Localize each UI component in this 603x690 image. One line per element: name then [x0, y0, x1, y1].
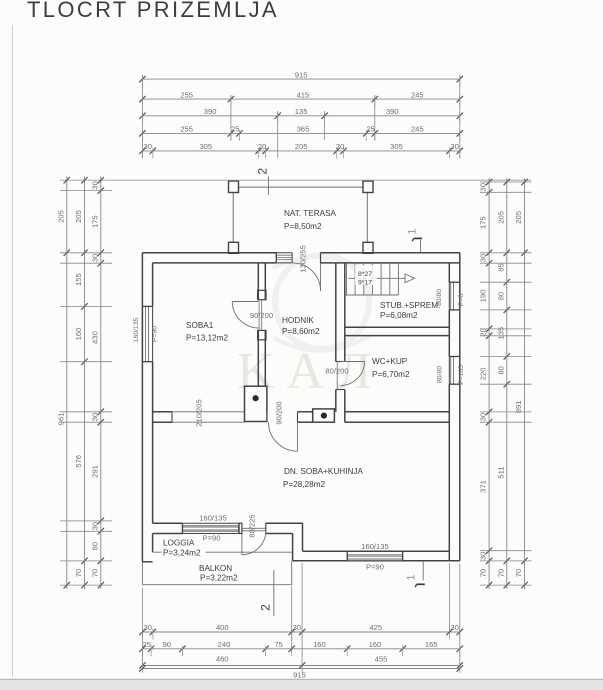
svg-text:P=6,08m2: P=6,08m2	[380, 311, 418, 320]
svg-text:205: 205	[74, 210, 83, 223]
watermark crest swirl	[272, 255, 369, 351]
main wall WC segment	[345, 412, 450, 422]
svg-text:20: 20	[479, 328, 488, 336]
wall HODNIK|STUB	[336, 263, 345, 422]
svg-text:90: 90	[163, 640, 171, 649]
right dim col 205|891|70	[514, 178, 528, 589]
right wall	[449, 253, 460, 561]
door label 80/200 (WC)	[325, 367, 348, 376]
svg-text:430: 430	[90, 331, 99, 344]
svg-text:25: 25	[143, 640, 151, 649]
door label 90/200 (DN.SOBA)	[275, 401, 284, 424]
svg-text:175: 175	[479, 216, 488, 229]
svg-text:75: 75	[274, 640, 282, 649]
svg-text:LOGGIA: LOGGIA	[163, 539, 195, 548]
door WC 80/200 (leaf+arc)	[337, 362, 364, 390]
svg-text:85: 85	[496, 263, 505, 271]
door label 80/225	[248, 514, 257, 537]
svg-text:NAT. TERASA: NAT. TERASA	[284, 209, 337, 218]
svg-text:160/135: 160/135	[199, 514, 226, 523]
svg-text:STUB.+SPREM.: STUB.+SPREM.	[380, 301, 440, 310]
staircase arrow	[349, 274, 415, 283]
top dim row 390|135|390	[139, 107, 463, 123]
window SOBA1 left 160/135	[142, 306, 152, 361]
svg-text:255: 255	[180, 125, 193, 134]
top wall left segment	[142, 253, 276, 263]
room label DN. SOBA+KUHINJA	[283, 467, 363, 489]
main wall SOBA1 stub	[153, 412, 172, 422]
top dim row 30|305|20|205|20|305|30	[139, 142, 463, 158]
door label 90/200 (SOBA1)	[250, 311, 273, 320]
svg-text:30: 30	[479, 254, 488, 262]
svg-text:160: 160	[74, 328, 83, 341]
svg-text:155: 155	[74, 273, 83, 286]
svg-text:30: 30	[90, 181, 99, 189]
svg-text:30: 30	[90, 254, 99, 262]
opening label 210/205	[195, 399, 204, 426]
top dim row 255|415|245	[139, 90, 463, 106]
loggia wall left segment	[153, 523, 183, 533]
left dim col 205|961	[56, 176, 70, 589]
left dim col 205|155|160|576|70	[74, 176, 88, 589]
room label STUB.+SPREM.	[380, 301, 440, 320]
svg-text:511: 511	[496, 466, 505, 478]
door DN.SOBA 90/200 (leaf+arc)	[267, 413, 298, 451]
svg-text:P=3,22m2: P=3,22m2	[200, 574, 238, 583]
terrace pillar top-right	[363, 181, 373, 193]
top dim row 915	[139, 70, 463, 86]
svg-text:400: 400	[216, 623, 229, 632]
bottom dim row 915 (label below line)	[139, 665, 463, 679]
door SOBA1 90/200 (leaf+arc)	[232, 300, 261, 331]
wall STUB|WC	[336, 327, 450, 335]
svg-text:DN. SOBA+KUHINJA: DN. SOBA+KUHINJA	[284, 467, 363, 476]
svg-text:80/200: 80/200	[325, 367, 348, 376]
window label P=90 (loggia)	[203, 534, 221, 543]
svg-text:30: 30	[479, 183, 488, 191]
right dim col 205|85|80|135|80|511|70	[496, 178, 510, 589]
window STUB right 80/80	[449, 282, 460, 310]
room label LOGGIA	[163, 539, 201, 558]
svg-text:P=90: P=90	[152, 326, 159, 342]
svg-text:P=0: P=0	[458, 294, 465, 307]
terrace outline (NAT. TERASA)	[233, 187, 367, 253]
svg-text:245: 245	[411, 90, 424, 99]
svg-text:30: 30	[90, 522, 99, 530]
svg-text:P=8,50m2: P=8,50m2	[284, 222, 322, 231]
svg-text:1: 1	[406, 574, 418, 580]
svg-text:2: 2	[256, 168, 270, 175]
svg-text:210/205: 210/205	[195, 399, 204, 426]
page left border line	[12, 25, 14, 676]
section line 2 top	[256, 168, 270, 195]
svg-text:80: 80	[90, 542, 99, 550]
stairs label 8*27 9*17	[355, 265, 377, 286]
svg-text:390: 390	[204, 107, 217, 116]
svg-text:220: 220	[479, 368, 488, 381]
svg-text:30: 30	[450, 623, 458, 632]
svg-text:P=6,70m2: P=6,70m2	[372, 370, 410, 379]
svg-text:205: 205	[295, 142, 308, 151]
svg-text:P=28,28m2: P=28,28m2	[283, 480, 326, 489]
svg-text:165: 165	[425, 640, 438, 649]
svg-text:425: 425	[369, 623, 382, 632]
guide line above terrace	[60, 179, 531, 181]
svg-text:P=13,12m2: P=13,12m2	[186, 334, 229, 343]
svg-text:915: 915	[293, 671, 306, 680]
svg-text:25: 25	[231, 125, 239, 134]
door LOGGIA 80/225 (threshold+leaf+arc)	[242, 528, 266, 555]
bottom wall right part	[293, 551, 460, 561]
svg-text:70: 70	[90, 569, 99, 577]
svg-text:160/135: 160/135	[133, 318, 140, 343]
room label BALKON	[199, 564, 238, 583]
svg-text:80/80: 80/80	[437, 366, 444, 383]
svg-text:30: 30	[143, 142, 151, 151]
svg-text:245: 245	[411, 125, 424, 134]
top dim row 255|25|365|25|245	[139, 125, 463, 141]
page bottom gray band	[0, 679, 603, 690]
staircase treads	[345, 263, 399, 295]
pier with dot at SOBA1 (A)	[245, 386, 267, 421]
window label P=90 (bottom)	[366, 563, 384, 572]
svg-text:70: 70	[514, 569, 523, 577]
svg-text:576: 576	[74, 455, 83, 468]
svg-text:30: 30	[479, 552, 488, 560]
svg-text:205: 205	[514, 211, 523, 224]
balkon outline	[142, 561, 291, 585]
bottom dim row 25|90|240|75|160|160|165	[139, 640, 463, 656]
window WC right 80/80	[449, 357, 460, 385]
svg-text:415: 415	[297, 90, 310, 99]
window end block loggia	[239, 523, 242, 533]
svg-text:P=165: P=165	[458, 365, 465, 385]
svg-text:390: 390	[386, 107, 399, 116]
svg-text:240: 240	[218, 640, 231, 649]
svg-text:90/200: 90/200	[275, 401, 284, 424]
room label HODNIK	[282, 316, 320, 336]
svg-text:P=3,24m2: P=3,24m2	[163, 549, 201, 558]
svg-text:455: 455	[375, 654, 388, 663]
door jamb blocks SOBA1 door	[258, 290, 266, 340]
svg-text:80: 80	[496, 292, 505, 300]
svg-text:30: 30	[90, 413, 99, 421]
svg-text:70: 70	[74, 569, 83, 577]
terrace pillar top-left	[229, 181, 239, 193]
svg-text:160/135: 160/135	[361, 542, 388, 551]
svg-text:961: 961	[56, 413, 65, 426]
section line 2 bottom	[259, 570, 274, 616]
svg-text:P=8,60m2: P=8,60m2	[282, 327, 320, 336]
room label NAT. TERASA	[284, 209, 337, 231]
bottom step wall	[266, 523, 303, 561]
room label WC+KUP	[372, 357, 410, 379]
window label P=90 (left)	[152, 326, 159, 342]
svg-text:891: 891	[514, 401, 523, 414]
pier with dot on main wall (B)	[313, 409, 335, 422]
svg-text:1: 1	[407, 228, 419, 234]
svg-text:SOBA1: SOBA1	[186, 321, 214, 330]
svg-text:291: 291	[90, 465, 99, 478]
left dim guides	[60, 191, 112, 585]
svg-text:TLOCRT PRIZEMLJA: TLOCRT PRIZEMLJA	[27, 0, 279, 22]
svg-text:160: 160	[313, 640, 326, 649]
bottom dim row 30|400|30|425|30	[139, 623, 463, 639]
svg-text:915: 915	[295, 70, 308, 79]
svg-text:P=90: P=90	[203, 534, 221, 543]
window label 160/135 (left)	[133, 318, 140, 343]
top wall right segment	[321, 253, 460, 263]
svg-text:70: 70	[479, 569, 488, 577]
section marker 1 bottom	[406, 561, 425, 587]
front door 130/255 (sidelight band)	[276, 253, 292, 263]
window label 80/80 (WC)	[437, 366, 444, 383]
window label P=165	[458, 365, 465, 385]
svg-text:90/200: 90/200	[250, 311, 273, 320]
loggia floor edge	[153, 551, 292, 553]
svg-text:135: 135	[295, 107, 308, 116]
svg-text:2: 2	[259, 604, 273, 611]
right dim col 30|175|30|190|20|220|30|371|30|70	[479, 178, 493, 589]
svg-text:190: 190	[479, 290, 488, 303]
terrace pillar bottom-left (at wall)	[229, 242, 239, 253]
svg-text:205: 205	[56, 210, 65, 223]
window label 160/135 (bottom)	[361, 542, 388, 551]
svg-text:20: 20	[258, 142, 266, 151]
left dim col 30|175|30|430|291|30|80|70	[90, 176, 104, 589]
window LOGGIA 160/135	[182, 523, 239, 533]
svg-text:30: 30	[479, 413, 488, 421]
svg-text:255: 255	[180, 90, 193, 99]
svg-text:HODNIK: HODNIK	[282, 316, 314, 325]
svg-text:8*27: 8*27	[358, 271, 372, 278]
window label P=0	[458, 294, 465, 307]
bottom dim guides	[142, 563, 459, 670]
svg-text:30: 30	[143, 623, 151, 632]
section marker 1 top	[407, 228, 423, 252]
top dim guides	[142, 75, 459, 158]
door label 130/255	[299, 245, 308, 272]
svg-text:205: 205	[496, 211, 505, 224]
svg-text:305: 305	[390, 142, 403, 151]
svg-text:175: 175	[90, 215, 99, 228]
svg-text:365: 365	[297, 125, 310, 134]
svg-text:25: 25	[366, 125, 374, 134]
svg-text:460: 460	[216, 654, 229, 663]
front door 130/255 (leaf+arc)	[292, 256, 320, 291]
svg-text:20: 20	[336, 142, 344, 151]
main wall segment right of door	[298, 412, 313, 422]
svg-text:80: 80	[496, 366, 505, 374]
bottom dim row 460|455	[139, 654, 463, 673]
svg-text:BALKON: BALKON	[199, 564, 232, 573]
svg-text:70: 70	[496, 569, 505, 577]
window label 80/80 (STUB)	[436, 289, 443, 306]
svg-text:371: 371	[479, 480, 488, 493]
window DN.SOBA bottom 160/135	[347, 551, 403, 561]
svg-text:9*17: 9*17	[358, 279, 372, 286]
right dim guides	[480, 182, 532, 585]
svg-text:130/255: 130/255	[299, 245, 308, 272]
svg-text:160: 160	[369, 640, 382, 649]
terrace pillar bottom-right (at wall)	[363, 242, 373, 253]
svg-text:30: 30	[293, 623, 301, 632]
opening 210/205 thin lines	[172, 412, 245, 422]
svg-text:P=90: P=90	[366, 563, 384, 572]
svg-text:305: 305	[199, 142, 212, 151]
svg-text:80/225: 80/225	[248, 514, 257, 537]
left wall	[142, 253, 152, 562]
wall SOBA1|HODNIK	[258, 263, 265, 386]
svg-text:WC+KUP: WC+KUP	[372, 357, 408, 366]
svg-text:30: 30	[450, 142, 458, 151]
room label SOBA1	[186, 321, 229, 343]
window label 160/135 (loggia)	[199, 514, 226, 523]
